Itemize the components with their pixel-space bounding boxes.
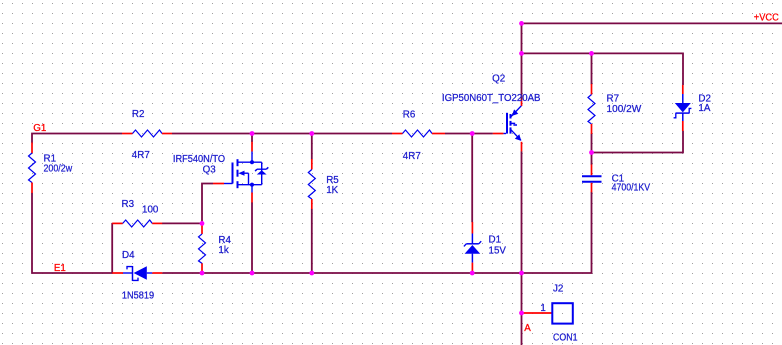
capacitor C1 4700/1KV (582, 165, 651, 194)
resistor R4 1k vertical (199, 223, 232, 273)
junction D1 bottom on E1 rail (470, 271, 475, 276)
svg-text:1K: 1K (326, 185, 338, 196)
svg-text:R2: R2 (132, 109, 145, 120)
connector J2 CON1 (522, 283, 578, 343)
transistor Q2 IGP50N60T_TO220AB igbt (442, 73, 541, 151)
wire R7 top stub (591, 53, 593, 84)
junction D1 top on G1 rail (470, 131, 475, 136)
svg-text:CON1: CON1 (553, 333, 578, 344)
junction Q3 source on E1 rail (250, 271, 255, 276)
wire G1 rail middle segment (172, 133, 392, 135)
resistor R6 4R7 horizontal (392, 109, 445, 162)
wire R3 right to R4 junction (162, 222, 202, 224)
svg-text:4R7: 4R7 (132, 150, 150, 161)
svg-text:J2: J2 (553, 283, 563, 294)
wire G1 rail left segment and R1 top stub (32, 134, 122, 143)
wire +VCC rail and main vertical drop (522, 23, 782, 100)
diode D1 15V zener vertical (464, 222, 506, 273)
svg-text:100: 100 (142, 205, 159, 216)
svg-text:D1: D1 (489, 234, 502, 245)
svg-text:E1: E1 (54, 263, 66, 274)
wire D2 bottom corner to C1 junction (592, 131, 684, 153)
junction main vertical and second rail (519, 51, 524, 56)
wire Q3 source to E1 rail (251, 202, 253, 273)
wire E1 rail left part and left vertical below R1 (32, 193, 113, 273)
wire C1 top stub (591, 153, 593, 165)
wire R7 bottom to C1 junction (591, 134, 593, 154)
svg-text:15V: 15V (489, 246, 507, 257)
wire second rail to D2 branch (522, 53, 684, 85)
resistor R3 100 horizontal (112, 199, 162, 227)
resistor R2 4R7 horizontal (122, 109, 172, 161)
wire D1 branch from G1 rail (471, 134, 473, 223)
svg-text:Q2: Q2 (492, 73, 505, 84)
wire G1 rail right segment to Q2 gate (445, 133, 493, 135)
wire R4 junction up to Q3 gate (202, 184, 213, 224)
svg-text:4R7: 4R7 (403, 151, 421, 162)
svg-text:IRF540N/TO: IRF540N/TO (173, 154, 226, 165)
junction R3 R4 gate node (200, 221, 205, 226)
junction Q3 drain on G1 rail (250, 131, 255, 136)
svg-text:Q3: Q3 (203, 164, 217, 175)
svg-text:200/2w: 200/2w (44, 164, 73, 175)
junction Q2 emitter on E1 rail (519, 271, 524, 276)
junction R7 top (589, 51, 594, 56)
svg-text:4700/1KV: 4700/1KV (612, 183, 651, 194)
wire R5 bottom stub (311, 209, 313, 273)
wire R5 top stub (311, 134, 313, 160)
junction J2 pin tap (519, 311, 524, 316)
svg-text:1N5819: 1N5819 (122, 290, 154, 301)
wire Q2 emitter down through E1 rail and J2 tap to bottom edge (521, 151, 523, 345)
resistor R1 200/2w vertical (29, 143, 73, 194)
svg-text:R3: R3 (122, 199, 135, 210)
svg-text:+VCC: +VCC (754, 13, 779, 24)
junction R4 bottom on E1 rail (200, 271, 205, 276)
wire R3 left drop to E1 rail (111, 223, 113, 273)
wire C1 bottom and E1 rail right part (162, 192, 591, 273)
diode D2 1A schottky vertical (674, 85, 711, 131)
wire Q3 drain stub (251, 134, 253, 143)
junction R5 bottom on E1 rail (309, 271, 314, 276)
svg-text:1k: 1k (218, 245, 228, 256)
svg-text:R7: R7 (607, 94, 620, 105)
svg-text:A: A (524, 323, 531, 334)
transistor Q3 IRF540N/TO mosfet (173, 142, 268, 203)
junction C1 top (589, 150, 594, 155)
svg-text:IGP50N60T_TO220AB: IGP50N60T_TO220AB (442, 93, 541, 104)
resistor R7 100/2W vertical (588, 84, 642, 134)
svg-text:1A: 1A (698, 103, 710, 114)
junction at VCC rail corner (519, 21, 524, 26)
svg-text:D4: D4 (122, 250, 135, 261)
svg-text:100/2W: 100/2W (607, 104, 642, 115)
resistor R5 1K vertical (308, 159, 339, 209)
svg-text:1: 1 (540, 303, 545, 314)
diode D4 1N5819 schottky horizontal (112, 250, 162, 302)
svg-text:G1: G1 (33, 123, 46, 134)
junction R5 top on G1 rail (309, 131, 314, 136)
svg-text:R6: R6 (403, 109, 416, 120)
